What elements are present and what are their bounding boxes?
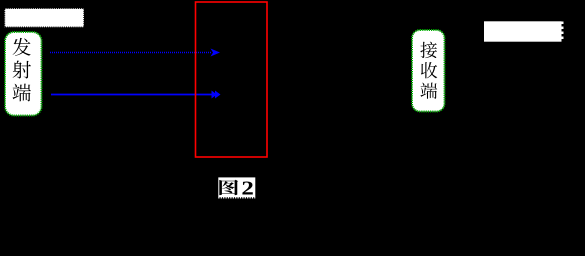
solid arrow wire (bottom) (51, 91, 221, 99)
caption 图 2 (218, 177, 255, 199)
dotted arrow wire (top) (50, 49, 220, 57)
receiver box 接收端 (412, 30, 445, 112)
svg-text:2: 2 (241, 177, 253, 199)
label box (empty, dashed border) top-left (5, 8, 85, 27)
label box (white) top-right (484, 21, 563, 41)
channel rectangle (red) (196, 2, 268, 157)
transmitter box 发射端 (5, 32, 42, 116)
